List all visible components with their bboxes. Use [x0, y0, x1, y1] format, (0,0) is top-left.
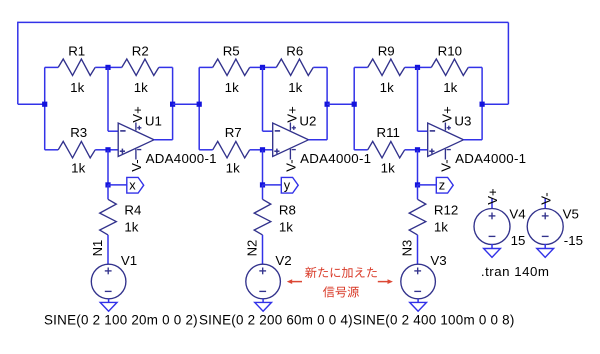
svg-text:V1: V1 — [121, 253, 137, 268]
wire U3 output — [464, 104, 483, 140]
node flag x — [127, 177, 144, 193]
resistor R11 — [354, 141, 417, 158]
wire to node x — [107, 150, 109, 188]
svg-text:x: x — [129, 178, 136, 193]
resistor R3 — [45, 141, 108, 158]
annotation red arrow left to V2 — [287, 279, 302, 284]
wire V5 top stub — [544, 198, 546, 209]
wire U3 output to feedback — [482, 103, 508, 105]
wire flag stub — [263, 184, 282, 186]
svg-text:ADA4000-1: ADA4000-1 — [146, 151, 217, 166]
svg-text:V3: V3 — [430, 253, 446, 268]
voltage source V4 — [474, 209, 510, 245]
wire R6 to output node — [326, 67, 328, 104]
junction R3 node — [105, 147, 110, 152]
wire to node z — [417, 150, 419, 188]
svg-text:R5: R5 — [223, 44, 240, 59]
svg-text:R8: R8 — [279, 203, 296, 218]
ground V4 — [484, 244, 501, 257]
op-amp U3 ADA4000-1 — [428, 123, 464, 160]
wire noninverting input — [418, 149, 428, 151]
wire V4 top stub — [491, 198, 493, 209]
wire flag stub — [108, 184, 127, 186]
svg-text:z: z — [439, 178, 445, 193]
node flag z — [436, 177, 453, 193]
resistor R4 — [100, 185, 117, 264]
svg-text:SINE(0 2 400 100m 0 0 8): SINE(0 2 400 100m 0 0 8) — [353, 313, 515, 328]
svg-text:R11: R11 — [376, 125, 399, 140]
junction R1/R2 — [105, 65, 110, 70]
junction R5/R6 — [260, 65, 265, 70]
resistor R6 — [263, 59, 328, 76]
annotation text 新たに加えた — [305, 267, 377, 278]
svg-text:R6: R6 — [286, 44, 303, 59]
svg-text:15: 15 — [511, 233, 526, 248]
junction U2 output node — [325, 102, 330, 107]
svg-text:R1: R1 — [68, 44, 85, 59]
svg-text:V2: V2 — [275, 253, 291, 268]
wire noninverting input — [108, 149, 118, 151]
wire inverting input — [418, 67, 428, 131]
svg-text:V+: V+ — [130, 106, 145, 122]
svg-text:y: y — [284, 178, 291, 193]
svg-text:1k: 1k — [443, 80, 457, 95]
junction node x — [105, 182, 110, 187]
ground V2 — [255, 299, 272, 311]
svg-text:N1: N1 — [90, 240, 105, 257]
svg-text:V-: V- — [284, 159, 299, 171]
svg-text:1k: 1k — [279, 219, 293, 234]
svg-text:V-: V- — [538, 192, 553, 204]
ground V3 — [410, 299, 427, 311]
svg-text:U3: U3 — [454, 113, 471, 128]
wire outer feedback left drop — [17, 22, 19, 105]
annotation red arrow right to V3 — [378, 279, 393, 284]
resistor R5 — [199, 59, 262, 76]
svg-text:1k: 1k — [71, 161, 85, 176]
svg-text:N2: N2 — [244, 240, 259, 257]
wire R2 to output node — [172, 67, 174, 104]
svg-text:U2: U2 — [299, 113, 316, 128]
wire from previous stage output — [327, 103, 354, 105]
voltage source V1 — [91, 264, 126, 299]
svg-text:R2: R2 — [132, 44, 149, 59]
junction stage3 rail — [352, 102, 357, 107]
node stage1 input rail — [44, 67, 46, 149]
ground V1 — [100, 299, 117, 311]
wire U1 output — [154, 104, 173, 140]
junction node z — [415, 182, 420, 187]
op-amp U2 ADA4000-1 — [273, 123, 309, 160]
ground V5 — [537, 244, 554, 257]
wire noninverting input — [263, 149, 273, 151]
wire to node y — [262, 150, 264, 188]
svg-text:R4: R4 — [124, 203, 141, 218]
svg-text:1k: 1k — [225, 80, 239, 95]
resistor R7 — [199, 141, 262, 158]
wire from previous stage output — [173, 103, 200, 105]
svg-text:SINE(0 2 200 60m 0 0 4): SINE(0 2 200 60m 0 0 4) — [199, 313, 353, 328]
voltage source V5 — [527, 209, 563, 245]
svg-text:V4: V4 — [509, 206, 525, 221]
svg-text:V5: V5 — [563, 206, 579, 221]
svg-text:-15: -15 — [564, 233, 583, 248]
svg-text:R10: R10 — [438, 44, 462, 59]
wire R10 to output node — [481, 67, 483, 104]
wire flag stub — [418, 184, 437, 186]
junction R11 node — [415, 147, 420, 152]
svg-text:1k: 1k — [381, 161, 395, 176]
svg-text:R3: R3 — [70, 125, 87, 140]
junction stage1 rail — [42, 102, 47, 107]
svg-text:1k: 1k — [70, 80, 84, 95]
svg-text:1k: 1k — [434, 219, 448, 234]
svg-text:N3: N3 — [399, 240, 414, 257]
wire outer feedback into stage1 — [18, 103, 45, 105]
wire outer feedback top — [18, 21, 509, 23]
voltage source V2 — [246, 264, 281, 299]
resistor R10 — [418, 59, 483, 76]
annotation text 信号源 — [323, 286, 359, 297]
svg-text:V+: V+ — [439, 106, 454, 122]
svg-text:.tran 140m: .tran 140m — [481, 264, 550, 279]
svg-text:U1: U1 — [145, 113, 162, 128]
junction U3 output node — [480, 102, 485, 107]
svg-text:SINE(0 2 100 20m 0 0 2): SINE(0 2 100 20m 0 0 2) — [44, 313, 198, 328]
svg-text:1k: 1k — [124, 219, 138, 234]
voltage source V3 — [401, 264, 436, 299]
junction node y — [260, 182, 265, 187]
node stage2 input rail — [198, 67, 200, 149]
svg-text:R12: R12 — [434, 203, 458, 218]
resistor R8 — [254, 185, 271, 264]
svg-text:1k: 1k — [288, 80, 302, 95]
wire outer feedback right riser — [507, 22, 509, 104]
junction U1 output node — [170, 102, 175, 107]
node flag y — [281, 177, 298, 193]
node stage3 input rail — [353, 67, 355, 149]
svg-text:R7: R7 — [225, 125, 242, 140]
svg-text:V+: V+ — [485, 188, 500, 205]
wire U2 output — [309, 104, 328, 140]
op-amp U1 ADA4000-1 — [118, 123, 154, 160]
svg-text:1k: 1k — [226, 161, 240, 176]
svg-text:V-: V- — [439, 159, 454, 171]
junction stage2 rail — [197, 102, 202, 107]
svg-text:V+: V+ — [284, 106, 299, 122]
resistor R9 — [354, 59, 417, 76]
junction R9/R10 — [415, 65, 420, 70]
wire inverting input — [263, 67, 273, 131]
svg-text:1k: 1k — [134, 80, 148, 95]
resistor R12 — [409, 185, 426, 264]
svg-text:R9: R9 — [378, 44, 395, 59]
resistor R1 — [45, 59, 108, 76]
wire inverting input — [108, 67, 118, 131]
svg-text:V-: V- — [129, 159, 144, 171]
svg-text:ADA4000-1: ADA4000-1 — [300, 151, 371, 166]
svg-text:ADA4000-1: ADA4000-1 — [455, 151, 526, 166]
resistor R2 — [108, 59, 173, 76]
junction R7 node — [260, 147, 265, 152]
svg-text:1k: 1k — [380, 80, 394, 95]
